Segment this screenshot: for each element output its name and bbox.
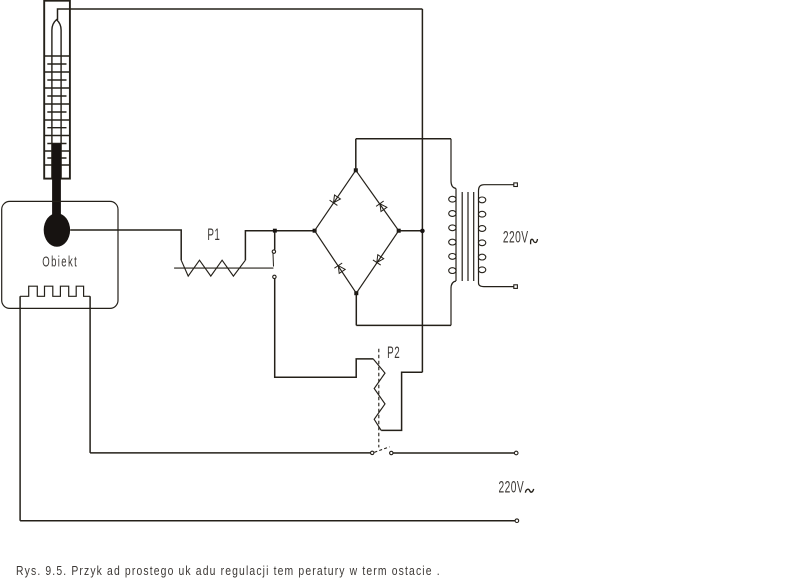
diode D1 on upper-left edge	[330, 195, 341, 205]
switch S2 dashed lever	[374, 447, 389, 453]
label P2	[387, 343, 400, 361]
svg-text:220V: 220V	[499, 478, 525, 496]
transformer secondary bottom lead	[479, 283, 514, 287]
caption text	[16, 564, 440, 578]
transformer T1 primary winding line	[455, 189, 457, 282]
switch S1 wire from junction down to top contact	[274, 233, 276, 250]
potentiometer P1 resistor zigzag	[181, 260, 245, 276]
tilde rotated for secondary 220V	[531, 239, 538, 244]
diode D3 on lower-left edge	[334, 263, 345, 273]
wire from thermometer top to main vertical	[58, 9, 423, 20]
secondary bottom terminal square	[514, 285, 518, 289]
transformer T1 secondary winding line	[478, 191, 480, 284]
main vertical wire (right)	[421, 9, 423, 372]
top rail wire to transformer	[356, 138, 451, 140]
svg-text:1: 1	[214, 226, 219, 244]
wire bridge top node to top rail	[355, 139, 357, 171]
wire P1 right end up and to switch junction	[245, 231, 314, 261]
diode bridge: top node square	[354, 168, 358, 172]
wire from bulb to P1	[70, 230, 181, 260]
switch S1 lever	[272, 254, 275, 267]
label Obiekt	[42, 254, 77, 271]
terminal circle right of switch line	[514, 451, 518, 455]
bridge edge wire upper-right	[356, 170, 399, 230]
bottom 220V wire	[20, 520, 515, 522]
wire from S1 bottom contact down to P2	[275, 279, 374, 378]
diode bridge: bottom node square	[354, 291, 358, 295]
svg-text:2: 2	[394, 343, 399, 361]
transformer T1 primary lead-in	[451, 139, 456, 189]
diode D4 on lower-right edge	[373, 255, 384, 265]
node junction square at switch S1	[273, 229, 277, 233]
svg-text:P: P	[207, 226, 214, 244]
switch S2 right contact circle	[390, 451, 393, 454]
diode bridge: left node square	[313, 229, 317, 233]
P2 dashed wiper axis	[378, 349, 380, 448]
thermometer body outer tube	[44, 1, 70, 179]
Obiekt box	[2, 201, 118, 308]
potentiometer P2 resistor zigzag	[374, 359, 386, 430]
transformer core lines	[462, 192, 474, 281]
thermometer mercury column	[52, 144, 61, 219]
junction dot on main vertical	[420, 229, 425, 234]
label 220V secondary	[503, 228, 529, 246]
bottom rail wire to transformer	[356, 324, 451, 326]
bridge edge wire upper-left	[315, 170, 356, 230]
thermometer inner capillary tube	[52, 20, 61, 179]
svg-text:220V: 220V	[503, 228, 529, 246]
wire bridge bottom node down to bottom rail	[355, 293, 357, 325]
transformer T1 secondary winding loops	[478, 197, 485, 273]
switch S1 top contact circle	[272, 250, 275, 253]
wire heater left down to bottom 220V line	[19, 296, 21, 520]
diode D2 on upper-right edge	[376, 201, 387, 212]
label 220V mains	[499, 478, 525, 496]
label P1	[207, 226, 219, 244]
transformer T1 primary lead-out	[451, 281, 456, 325]
transformer T1 primary winding loops	[449, 196, 456, 273]
bridge edge wire lower-left	[315, 231, 357, 294]
wire heater-right to switch S2 left contact	[90, 452, 370, 454]
svg-text:Rys. 9.5. Przyk ad prostego uk: Rys. 9.5. Przyk ad prostego uk adu regul…	[16, 564, 440, 578]
wire switch S2 to right terminal	[393, 452, 515, 454]
thermometer scale tick lines	[47, 64, 66, 158]
P1 wiper line	[174, 267, 273, 269]
terminal circle bottom wire	[515, 519, 519, 523]
svg-text:P: P	[387, 343, 394, 361]
switch S1 bottom contact circle	[273, 275, 276, 278]
thermometer bulb	[44, 213, 70, 247]
tilde for mains 220V	[525, 489, 533, 493]
transformer secondary top lead	[479, 185, 514, 191]
diode bridge: right node square	[397, 229, 401, 233]
bridge edge wire lower-right	[356, 231, 398, 294]
switch S2 left contact circle	[371, 451, 374, 454]
svg-text:Obiekt: Obiekt	[42, 254, 77, 271]
wire heater right down to switch line	[89, 296, 91, 453]
thermometer scale full lines	[44, 56, 70, 165]
wire from P2 bottom to main vertical	[381, 372, 422, 430]
secondary top terminal square	[514, 183, 518, 187]
heater element in Obiekt	[20, 286, 90, 296]
wire bridge right node to junction	[399, 230, 423, 232]
